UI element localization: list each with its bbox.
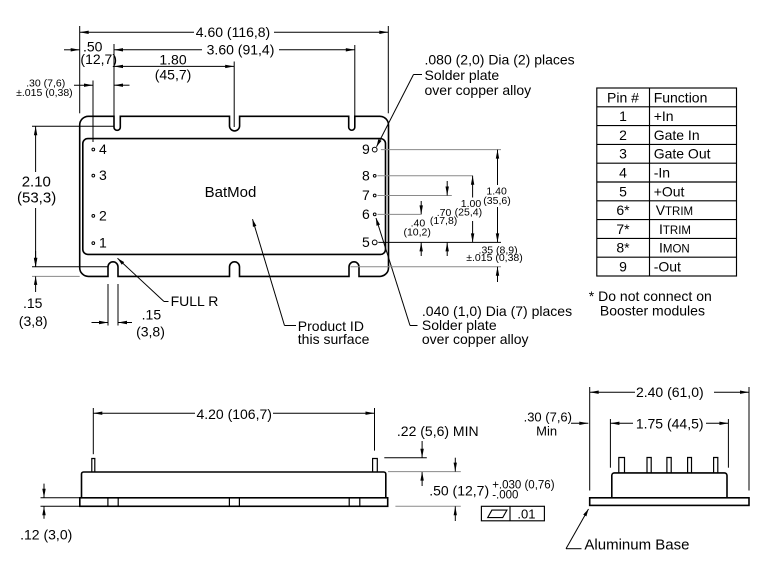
dimension 1.80 (45,7) — [114, 52, 234, 83]
svg-text:3: 3 — [619, 146, 627, 162]
svg-text:(35,6): (35,6) — [483, 195, 510, 207]
pin 5 dimension line — [378, 241, 501, 243]
svg-text:3: 3 — [99, 167, 107, 183]
svg-text:±.015 (0,38): ±.015 (0,38) — [16, 87, 73, 99]
end view base plate — [590, 498, 749, 506]
pin 8 dimension line — [378, 175, 474, 177]
svg-text:4: 4 — [99, 141, 107, 157]
dimension .30 (7,6) ±.015 (0,38) — [16, 78, 129, 99]
table row 7 — [616, 221, 691, 237]
svg-text:(53,3): (53,3) — [17, 190, 56, 207]
dimension .30 (7,6) Min — [524, 410, 589, 439]
pin 7 — [373, 194, 376, 197]
pin 9 — [372, 147, 377, 152]
end view pin a — [619, 458, 625, 473]
dimension .50 (12,7) — [64, 39, 117, 68]
svg-text:4.20 (106,7): 4.20 (106,7) — [196, 406, 272, 422]
leader .040 solder plate callout — [376, 218, 572, 347]
table row 4 — [619, 165, 670, 181]
pin 1 — [92, 242, 95, 245]
svg-text:.12 (3,0): .12 (3,0) — [20, 526, 72, 542]
svg-text:BatMod: BatMod — [205, 184, 257, 201]
dimension .35 (8,9) ±.015 (0,38) — [466, 245, 523, 282]
table row 9 — [619, 259, 681, 275]
pin 2 — [92, 215, 95, 218]
svg-text:.50 (12,7): .50 (12,7) — [429, 482, 489, 498]
end view pin d — [688, 458, 692, 473]
pin 4 — [92, 148, 95, 151]
svg-text:4.60 (116,8): 4.60 (116,8) — [196, 24, 270, 40]
leader Product ID this surface — [253, 219, 370, 347]
dimension 2.10 (53,3) — [17, 126, 114, 266]
svg-text:FULL R: FULL R — [171, 293, 219, 309]
svg-text:over copper alloy: over copper alloy — [425, 82, 532, 98]
dimension .12 (3,0) — [20, 484, 80, 543]
dimension .70 (17,8) — [430, 181, 457, 256]
flatness feature control frame — [481, 506, 544, 521]
side view slot lines right — [349, 498, 360, 507]
side view slot lines middle — [229, 498, 239, 507]
dimension .15 (3,8) left slot depth — [19, 251, 80, 329]
svg-text:Booster modules: Booster modules — [600, 303, 705, 319]
dimension 4.20 (106,7) — [93, 406, 374, 454]
svg-text:.01: .01 — [517, 506, 535, 521]
svg-text:(3,8): (3,8) — [136, 324, 165, 340]
svg-text:(10,2): (10,2) — [403, 226, 430, 238]
side view base strip — [80, 498, 388, 507]
svg-text:6*: 6* — [616, 202, 630, 218]
svg-text:1: 1 — [619, 108, 627, 124]
extension line left body edge — [79, 26, 81, 113]
side view left pin — [92, 459, 95, 473]
table row 1 — [619, 108, 673, 124]
svg-text:-.000: -.000 — [492, 490, 518, 502]
svg-text:Gate Out: Gate Out — [654, 146, 711, 162]
svg-text:3.60 (91,4): 3.60 (91,4) — [207, 42, 275, 58]
svg-text:7: 7 — [362, 187, 370, 203]
end view pin e — [714, 458, 718, 473]
svg-text:+In: +In — [654, 108, 674, 124]
svg-text:1.75 (44,5): 1.75 (44,5) — [636, 416, 704, 432]
table row 3 — [619, 146, 711, 162]
svg-text:Aluminum Base: Aluminum Base — [584, 536, 689, 553]
leader FULL R — [118, 258, 219, 309]
svg-text:2.10: 2.10 — [22, 174, 51, 191]
svg-text:Solder plate: Solder plate — [425, 67, 500, 83]
extension line right body edge — [387, 26, 389, 113]
svg-text:+Out: +Out — [654, 183, 685, 199]
svg-text:(25,4): (25,4) — [455, 206, 482, 218]
pin 5 — [372, 240, 377, 245]
svg-text:(45,7): (45,7) — [155, 67, 192, 83]
dimension 3.60 (91,4) — [114, 42, 355, 58]
table row 6 — [616, 202, 693, 218]
svg-text:±.015 (0,38): ±.015 (0,38) — [466, 252, 523, 264]
svg-text:(12,7): (12,7) — [80, 51, 117, 67]
pin 6 dimension line — [378, 213, 421, 215]
svg-text:2.40 (61,0): 2.40 (61,0) — [636, 384, 704, 400]
end view pin b — [647, 458, 651, 473]
pin 7 dimension line — [378, 195, 452, 197]
dimension 2.40 (61,0) — [590, 384, 749, 491]
svg-text:1: 1 — [99, 235, 107, 251]
side view slot lines left — [108, 498, 118, 507]
svg-text:Gate In: Gate In — [654, 127, 700, 143]
svg-text:2: 2 — [99, 207, 107, 223]
svg-text:8*: 8* — [616, 240, 630, 256]
svg-text:Function: Function — [654, 89, 708, 105]
extension line slot 1 — [113, 44, 115, 116]
dimension .40 (10,2) — [403, 201, 430, 256]
svg-text:5: 5 — [362, 234, 370, 250]
table row 8 — [616, 240, 689, 256]
dimension 1.00 (25,4) — [455, 176, 482, 243]
pin 3 — [92, 174, 95, 177]
table row 5 — [619, 183, 684, 199]
table footnote — [589, 288, 712, 319]
pin 8 — [373, 174, 376, 177]
extension line slot 3 — [354, 45, 356, 116]
leader Aluminum Base — [566, 509, 689, 553]
dimension 1.75 (44,5) — [610, 416, 728, 468]
end view pin c — [667, 458, 671, 473]
svg-text:1.80: 1.80 — [159, 52, 186, 68]
leader .080 solder plate callout — [377, 52, 575, 147]
svg-text:.080 (2,0) Dia (2) places: .080 (2,0) Dia (2) places — [425, 52, 575, 68]
svg-text:this surface: this surface — [298, 331, 370, 347]
top view body outline — [80, 116, 389, 276]
svg-text:2: 2 — [619, 127, 627, 143]
pin 9 dimension line — [381, 149, 501, 151]
svg-text:(17,8): (17,8) — [430, 215, 457, 227]
extension line pin column left — [92, 81, 94, 143]
svg-text:over copper alloy: over copper alloy — [422, 331, 529, 347]
dimension .22 (5,6) MIN — [384, 423, 478, 486]
svg-text:-Out: -Out — [654, 259, 681, 275]
end view body — [612, 473, 727, 498]
svg-text:5: 5 — [619, 183, 627, 199]
dimension 4.60 (116,8) — [80, 24, 389, 40]
extension line slot 2 center — [233, 62, 235, 128]
svg-text:8: 8 — [362, 167, 370, 183]
dimension .50 (12,7) +.030/-.000 — [388, 458, 555, 521]
pin 6 — [373, 213, 376, 216]
side view right pin — [373, 459, 378, 473]
right lower reference line — [351, 266, 502, 268]
svg-text:6: 6 — [362, 206, 370, 222]
svg-text:4: 4 — [619, 165, 627, 181]
svg-text:Min: Min — [536, 423, 557, 438]
svg-text:.22 (5,6) MIN: .22 (5,6) MIN — [397, 423, 479, 439]
svg-text:9: 9 — [362, 141, 370, 157]
svg-text:9: 9 — [619, 259, 627, 275]
svg-text:7*: 7* — [616, 221, 630, 237]
svg-text:-In: -In — [654, 165, 670, 181]
svg-text:Pin #: Pin # — [607, 89, 639, 105]
top view label recess rectangle — [83, 139, 386, 255]
dimension 1.40 (35,6) — [483, 150, 510, 243]
table header — [607, 89, 707, 105]
svg-text:.15: .15 — [142, 307, 162, 323]
pin function table frame — [597, 88, 737, 276]
svg-text:.15: .15 — [23, 295, 43, 311]
svg-text:(3,8): (3,8) — [19, 313, 48, 329]
dimension .15 (3,8) bottom slot width — [92, 284, 165, 340]
side view body — [82, 472, 386, 498]
table row 2 — [619, 127, 700, 143]
